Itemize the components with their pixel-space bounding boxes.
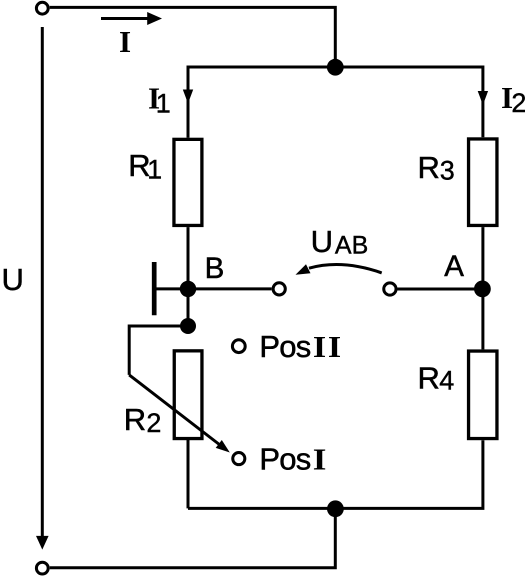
- wire: R2 to bottom rail: [187, 440, 190, 508]
- svg-text:U: U: [311, 224, 333, 259]
- terminal top-left: [36, 2, 48, 14]
- wire: right contact to node A: [397, 288, 483, 291]
- svg-text:Pos: Pos: [259, 329, 310, 364]
- svg-text:R: R: [418, 150, 440, 185]
- wire: bridge bottom rail and R4 stub: [188, 440, 483, 508]
- wiper wire left and down: [129, 326, 188, 375]
- terminal bottom-left: [36, 562, 48, 574]
- svg-text:II: II: [313, 330, 343, 364]
- Pos II contact circle: [232, 340, 245, 353]
- arrowhead U: [36, 536, 49, 550]
- wire: node B to left contact: [188, 287, 272, 290]
- junction dot wiper: [180, 318, 196, 334]
- contact circle B side: [273, 283, 285, 295]
- switch pole bar: [152, 262, 157, 315]
- svg-text:1: 1: [156, 88, 171, 118]
- voltage measurement line U: [41, 27, 44, 537]
- wire: node B to wiper dot: [187, 289, 190, 326]
- wire: bridge top rail with branch stubs: [188, 67, 483, 138]
- resistor R2: [174, 351, 202, 439]
- current arrow I: [101, 17, 149, 20]
- resistor R1: [174, 139, 202, 225]
- svg-text:I: I: [119, 24, 131, 59]
- Pos I contact circle: [233, 453, 245, 465]
- junction dot bottom: [327, 500, 344, 517]
- resistor R3: [469, 139, 497, 226]
- svg-text:U: U: [2, 262, 24, 297]
- wire: node A to R4: [481, 289, 484, 349]
- arrowhead I1: [183, 90, 193, 104]
- svg-text:R: R: [124, 402, 146, 437]
- wire: R1 to node B: [187, 227, 190, 289]
- svg-text:3: 3: [440, 155, 455, 185]
- wire: pole bar to node B: [154, 287, 188, 290]
- svg-text:2: 2: [146, 408, 161, 438]
- arrowhead I2: [478, 91, 488, 105]
- svg-text:4: 4: [439, 366, 454, 396]
- resistor R4: [469, 351, 497, 439]
- wire: R3 to node A: [481, 227, 484, 289]
- svg-text:AB: AB: [335, 231, 368, 259]
- junction dot top: [327, 59, 344, 76]
- svg-text:Pos: Pos: [259, 442, 310, 477]
- svg-text:B: B: [205, 252, 225, 285]
- node A dot: [474, 281, 491, 298]
- svg-text:R: R: [418, 361, 440, 396]
- svg-text:A: A: [444, 250, 464, 283]
- contact circle A side: [384, 283, 396, 295]
- arc arrow UAB: [309, 265, 382, 273]
- svg-text:I: I: [313, 443, 327, 477]
- node B dot: [180, 281, 196, 297]
- svg-text:2: 2: [511, 88, 525, 118]
- wiper diagonal arrow to Pos I: [129, 375, 220, 445]
- wire: top rail from terminal to drop: [50, 7, 336, 67]
- svg-text:1: 1: [147, 155, 162, 185]
- wire: bottom drop and bottom rail: [50, 508, 336, 567]
